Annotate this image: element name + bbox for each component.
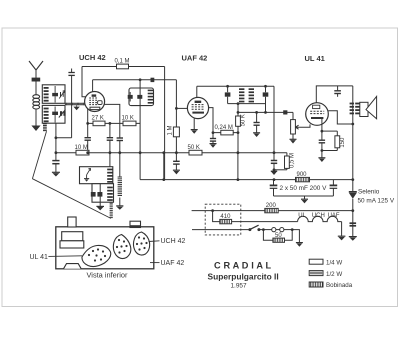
node 27K right	[109, 122, 112, 125]
wire	[35, 109, 37, 126]
wire pot bottom	[292, 134, 294, 139]
wire feedback lower	[119, 198, 121, 206]
wire UAF42 top cap	[196, 86, 198, 97]
wire B+ bottom rail	[140, 179, 353, 181]
label UCH 42 pointer	[149, 240, 160, 243]
capacitor coupling square	[283, 110, 287, 114]
inductor osc A bars	[107, 169, 113, 171]
svg-text:Vista inferior: Vista inferior	[87, 271, 128, 280]
inductor T1 winding bars	[148, 90, 154, 92]
svg-text:C R A D I A L: C R A D I A L	[214, 260, 271, 270]
node det cap junction	[255, 111, 258, 114]
wire long vertical from 0.1M rail	[164, 67, 166, 180]
tube socket UL41	[82, 245, 111, 266]
capacitor line filter	[350, 222, 357, 224]
tuning cap body upper	[62, 232, 83, 241]
svg-text:50 K: 50 K	[241, 114, 247, 126]
transformer secondary bars	[355, 103, 359, 105]
svg-text:UL 41: UL 41	[30, 254, 49, 261]
capacitor T1 a	[128, 95, 133, 99]
inductor osc B bars	[107, 187, 113, 189]
wire rectifier down	[352, 199, 354, 237]
tuning cap body lower	[60, 241, 84, 248]
dashed box mains dropper	[205, 204, 241, 235]
pot wiper arrow	[295, 125, 299, 129]
volume shaft	[130, 221, 141, 227]
wire	[35, 82, 37, 96]
node tap junction	[211, 209, 214, 212]
chassis bottom view box	[56, 227, 154, 269]
label UAF 42 pointer	[150, 262, 160, 264]
UL41 grid dashes	[310, 110, 324, 112]
lamp fuse circles	[263, 229, 271, 231]
svg-text:0,1 M: 0,1 M	[115, 58, 130, 64]
ground osc	[96, 206, 104, 210]
node IF2 bottom junction	[237, 102, 240, 105]
svg-text:10 M: 10 M	[75, 145, 88, 151]
speaker driver box	[360, 102, 368, 116]
wire rail corner down to grid	[82, 67, 86, 97]
wire UCH42 top cap	[92, 80, 94, 92]
capacitor feedthrough on plate rail	[151, 78, 155, 82]
resistor 27 K	[93, 121, 105, 126]
inductor IF2 secondary bars	[249, 88, 254, 90]
wire B+ link vertical	[237, 153, 239, 180]
ground gang	[76, 105, 78, 106]
UCH42 grid cap block	[92, 94, 97, 96]
speaker cone	[366, 96, 377, 118]
wire heater chain	[232, 221, 298, 223]
node IF1 top junction	[139, 78, 142, 81]
ground feedback	[116, 205, 123, 207]
svg-text:UCH 42: UCH 42	[79, 53, 106, 62]
capacitor screen decoupling	[273, 153, 275, 161]
wire UCH42 cathode down	[87, 109, 89, 124]
capacitor trimmer C1	[52, 93, 58, 96]
wire tuning line down from coil boxes	[55, 123, 57, 160]
node heater rail junction	[351, 209, 354, 212]
inductor feedback hatched	[118, 176, 122, 178]
svg-text:2 x 50 mF 200 V: 2 x 50 mF 200 V	[280, 185, 328, 192]
UAF42 grid dashes	[192, 104, 205, 106]
ground pot	[290, 138, 297, 140]
svg-text:900: 900	[297, 172, 308, 178]
node cathode junction	[86, 122, 89, 125]
legend 1/2W symbol	[309, 271, 323, 276]
capacitor osc Ba	[91, 192, 96, 197]
wire filter bottom	[274, 195, 334, 197]
capacitor electrolytic 50mF b	[332, 180, 334, 185]
svg-text:1/4 W: 1/4 W	[326, 259, 342, 266]
svg-text:UAF 42: UAF 42	[161, 260, 185, 267]
inductor IF2 primary bars	[239, 88, 244, 90]
ground under C3	[52, 171, 60, 173]
UL41 cathode bar	[311, 117, 323, 119]
UAF42 grid block	[195, 101, 202, 103]
capacitor cathode	[321, 131, 323, 140]
capacitor osc Bb	[97, 192, 102, 197]
wire UL41 anode top	[316, 86, 353, 103]
dial cord diagonal left	[32, 131, 46, 179]
svg-text:150: 150	[340, 137, 346, 148]
wire plate rail down via 1M	[175, 80, 177, 127]
wire tap down	[213, 211, 220, 222]
tube socket UCH42pos	[133, 232, 149, 255]
UAF42 anode bar	[192, 112, 204, 114]
node IF2 leads	[226, 85, 229, 88]
ground mains right	[349, 236, 357, 238]
wire detector rail	[238, 111, 293, 113]
resistor 10 M	[76, 150, 89, 155]
capacitor IF2 b	[265, 86, 267, 92]
IF transformer T1 box	[129, 88, 154, 106]
svg-text:1 M: 1 M	[168, 125, 174, 135]
trimmer arrow	[60, 92, 62, 97]
wire through T1	[139, 80, 141, 180]
wire 05M bottom link	[274, 169, 287, 171]
svg-text:200: 200	[266, 203, 277, 209]
switch mains	[248, 228, 251, 231]
capacitor T1 b	[137, 95, 142, 99]
inductor L1 winding bars	[44, 87, 49, 89]
wire UCH42 plate rail	[93, 79, 177, 81]
UL41 top cap box	[313, 105, 320, 108]
capacitor detector to ground	[256, 112, 258, 122]
node 024M junction	[237, 131, 240, 134]
capacitor IF2 a	[227, 86, 229, 92]
wire UAF42 cathode	[193, 118, 195, 129]
oscillator coil box B	[92, 184, 114, 203]
osc trimmer arrow	[87, 168, 91, 175]
resistor 900 wirewound	[296, 177, 310, 181]
svg-text:UL 41: UL 41	[305, 54, 325, 63]
label UL 41 pointer	[48, 255, 82, 258]
resistor 200 wirewound	[265, 208, 278, 212]
RF coil box L1	[42, 85, 65, 104]
capacitor bypass K3 on plate line	[117, 137, 123, 139]
wire top rail 0.1M	[82, 66, 165, 68]
wire UL41 screen to B+	[328, 111, 353, 124]
dial cord hatched gang bar	[65, 103, 85, 105]
potentiometer volume	[291, 120, 296, 134]
resistor 50 K screen	[189, 150, 202, 155]
wire link to grid capacitor	[56, 137, 72, 139]
resistor 1 M vertical	[173, 127, 179, 137]
wire vertical from screen rail	[163, 153, 165, 180]
wire grid cap down	[71, 75, 73, 137]
resistor 410 wirewound	[220, 219, 232, 223]
ground detector	[253, 132, 260, 134]
UCH42 cathode bar	[90, 107, 100, 109]
resistor 50 K AVC vertical	[236, 116, 241, 126]
trimmer C2 arrow	[60, 111, 62, 116]
UCH42 anode box small	[98, 101, 103, 105]
transformer primary bars	[350, 103, 354, 105]
ground screen decoupling	[273, 169, 275, 171]
svg-text:50: 50	[275, 233, 282, 239]
capacitor tone	[337, 86, 339, 91]
capacitor antenna series	[32, 78, 41, 82]
wire osc center down	[99, 184, 101, 207]
tube socket UAF42pos	[113, 235, 130, 259]
dial cord spring hatched	[110, 202, 113, 204]
svg-text:UCH 42: UCH 42	[161, 238, 186, 245]
svg-text:50 K: 50 K	[188, 145, 200, 151]
ground UL41 cathode	[321, 151, 323, 158]
wire cathode RC top	[322, 130, 337, 132]
wire UAF42 diode out	[209, 108, 213, 133]
svg-text:27 K: 27 K	[92, 116, 104, 122]
wire transformer vertical	[352, 86, 354, 192]
ground diode filter	[210, 143, 217, 145]
antenna	[29, 61, 36, 70]
tube UCH 42 envelope	[85, 92, 105, 112]
ground UAF cathode	[191, 129, 198, 131]
svg-text:Superpulgarcito II: Superpulgarcito II	[208, 271, 279, 281]
oscillator coil box A	[80, 167, 113, 184]
svg-text:50 mA 125 V: 50 mA 125 V	[358, 198, 395, 205]
dial cord diagonal right	[32, 179, 111, 219]
capacitor diode filter	[212, 133, 214, 139]
svg-text:Selenio: Selenio	[358, 189, 380, 196]
svg-text:10 K: 10 K	[122, 116, 134, 122]
resistor 0,5 M vertical	[286, 153, 288, 156]
wire heater end down	[341, 222, 343, 237]
wire osc right branch into box	[109, 153, 111, 167]
dial window bump	[64, 264, 82, 269]
wire cathode RC bottom	[322, 150, 337, 152]
inductor L2 winding bars	[44, 108, 49, 110]
resistor 50 surge parallel	[263, 230, 273, 241]
capacitor C3 to ground	[52, 160, 59, 162]
wire IF2 top rail	[197, 85, 274, 87]
ground heater	[338, 235, 346, 237]
svg-text:UAF 42: UAF 42	[182, 54, 208, 63]
node B junction	[55, 151, 58, 154]
RF coil box L2	[42, 105, 65, 123]
svg-text:0,5 M: 0,5 M	[290, 153, 296, 168]
ground filter	[304, 196, 306, 199]
node A junction	[55, 136, 58, 139]
resistor 150 vertical	[336, 131, 338, 136]
wire to mains ground	[292, 230, 299, 243]
ground AVC	[173, 169, 180, 171]
wire to volume pot	[292, 112, 294, 119]
wire UAF42 grid	[176, 107, 187, 109]
node UAF grid junction	[175, 107, 178, 110]
diode Selenio rectifier	[349, 191, 357, 193]
capacitor trimmer C2	[52, 112, 58, 115]
ground antenna arrow	[31, 126, 40, 132]
legend 1/4W symbol	[309, 259, 323, 264]
inductor antenna coil	[33, 95, 40, 99]
tube UAF 42 envelope	[187, 97, 208, 118]
UCH42 grid dashes	[89, 97, 98, 99]
wire AVC chain vertical	[237, 104, 239, 116]
node on B+ rail	[175, 151, 178, 154]
wire mains rail 2 switch	[192, 229, 250, 231]
svg-text:410: 410	[220, 214, 231, 220]
capacitor AVC to ground	[175, 153, 177, 161]
wire screen decoupling vertical	[273, 86, 275, 152]
dial cord coil hatched below L2	[43, 123, 47, 125]
tube UL 41 envelope	[306, 103, 329, 126]
resistor 0,24 M	[213, 132, 238, 134]
svg-text:1/2 W: 1/2 W	[326, 271, 342, 278]
node diode load junction	[212, 131, 215, 134]
capacitor bypass K2	[109, 123, 111, 137]
wire wiper to UL41 grid	[300, 124, 310, 127]
capacitor grid C4	[71, 69, 73, 73]
wire IF2 bottom	[228, 103, 266, 105]
wire mains rail 1	[192, 210, 353, 212]
wire B+ distribution rail	[56, 152, 287, 154]
wire hexode plate out right	[104, 104, 120, 138]
resistor 0,1 M	[117, 64, 129, 69]
resistor 10 K	[123, 121, 136, 126]
wire cathode resistor row	[88, 122, 140, 124]
capacitor electrolytic 50mF a	[273, 180, 275, 185]
svg-text:0,24 M: 0,24 M	[215, 125, 233, 131]
node dots on rail	[86, 151, 89, 154]
node bottom rail junctions	[162, 178, 165, 181]
capacitor bypass K1	[87, 123, 89, 137]
svg-text:1.957: 1.957	[231, 282, 247, 289]
inductor heater bumps	[298, 216, 342, 221]
legend bobinada symbol	[309, 282, 323, 287]
svg-text:Bobinada: Bobinada	[326, 282, 353, 289]
tuning shaft	[68, 217, 76, 227]
wire UL41 cathode down	[321, 119, 323, 131]
ground mains	[296, 242, 303, 244]
